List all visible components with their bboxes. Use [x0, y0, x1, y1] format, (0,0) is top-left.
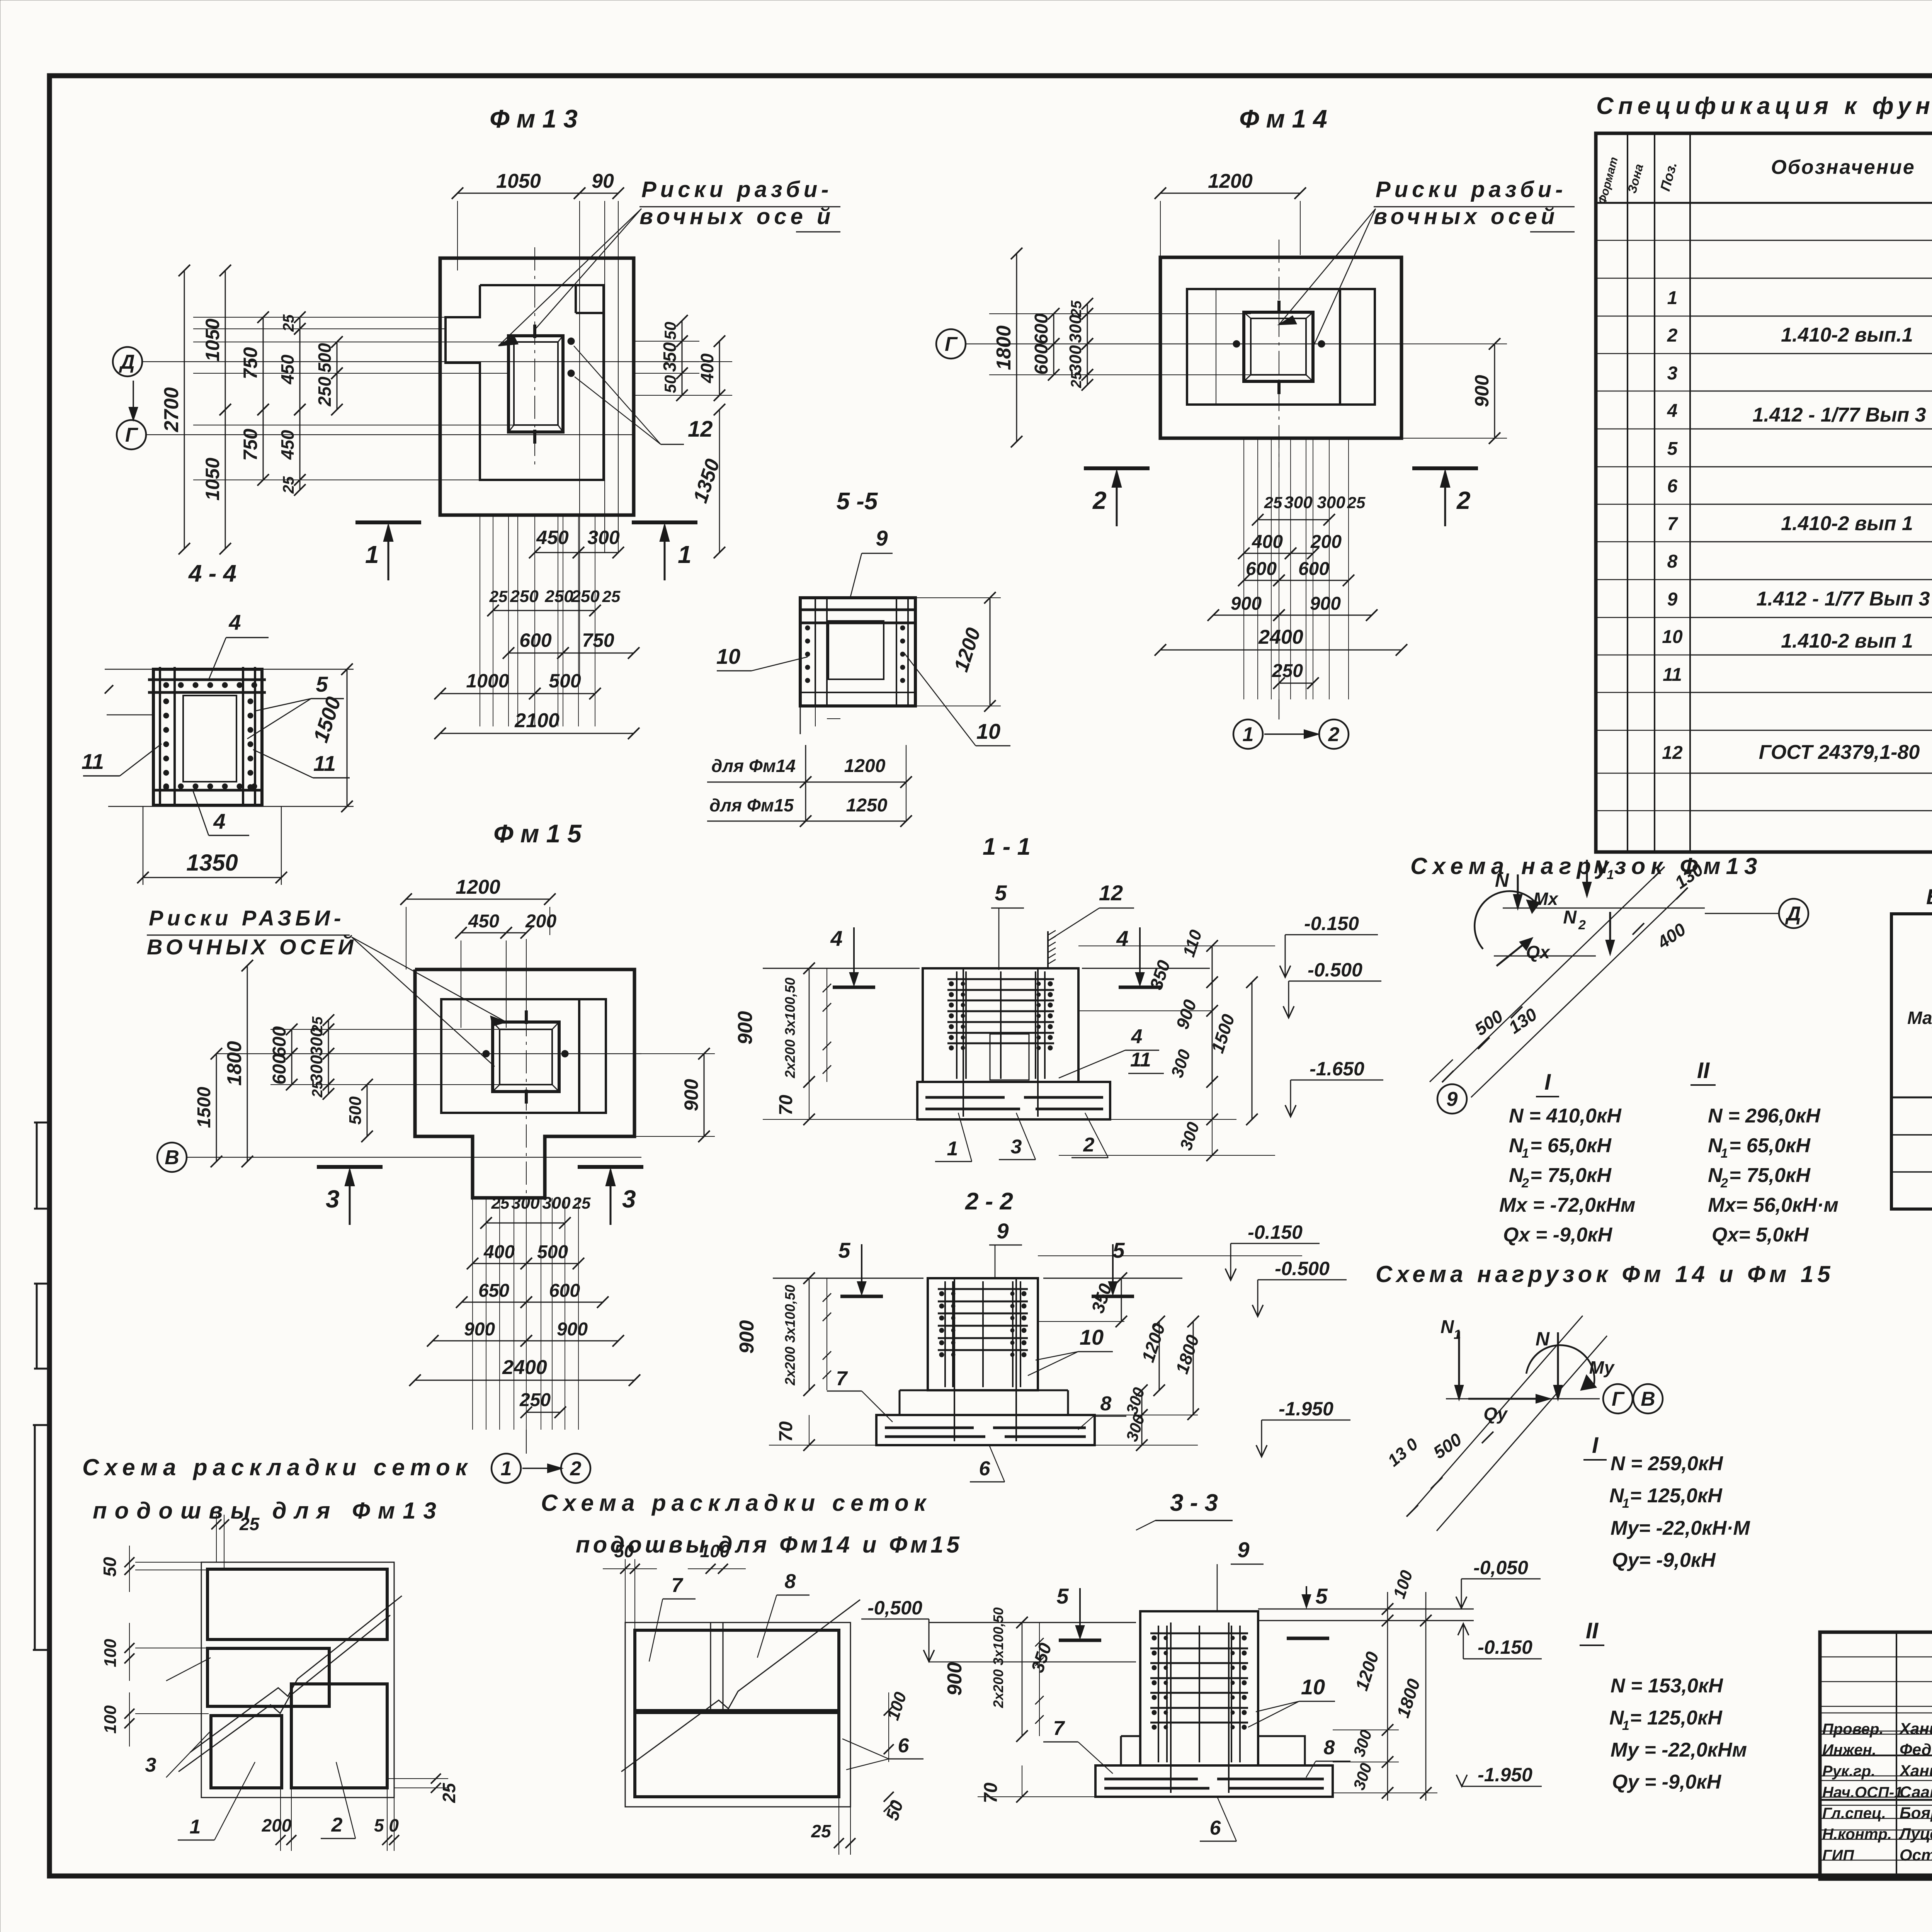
- svg-text:Схема раскладки сеток: Схема раскладки сеток: [82, 1454, 473, 1480]
- svg-text:200: 200: [262, 1815, 292, 1835]
- section 1-1 ground line right: [1082, 968, 1210, 969]
- svg-text:10: 10: [1080, 1325, 1104, 1349]
- svg-text:Н.контр.: Н.контр.: [1822, 1826, 1892, 1843]
- leader lines riski to pocket Fm14: [1279, 209, 1376, 325]
- section 1-1 footing bottom bars: [925, 1096, 1005, 1099]
- svg-text:25: 25: [811, 1821, 832, 1841]
- section 2-2 ground line right: [1043, 1278, 1182, 1279]
- section 3-3 ground line left: [929, 1622, 1136, 1623]
- svg-text:подошвы для Фм13: подошвы для Фм13: [93, 1498, 444, 1524]
- svg-text:900: 900: [1471, 375, 1493, 407]
- svg-text:Риски разби-: Риски разби-: [1376, 177, 1566, 202]
- svg-text:Qу= -9,0кН: Qу= -9,0кН: [1612, 1549, 1716, 1571]
- svg-text:90: 90: [592, 170, 614, 192]
- svg-text:1200: 1200: [1208, 170, 1253, 192]
- svg-text:ГОСТ 24379,1-80: ГОСТ 24379,1-80: [1759, 741, 1920, 764]
- section 5-5 rebar dots: [805, 626, 810, 630]
- svg-text:ГИП: ГИП: [1822, 1847, 1854, 1864]
- svg-text:2: 2: [1521, 1176, 1529, 1190]
- section 3-3 level -0.150 inverted: [1463, 1624, 1464, 1659]
- svg-text:1350: 1350: [186, 850, 238, 876]
- Fm15 left dim 25 300 300 25: [328, 1020, 329, 1029]
- specification table header row line: [1596, 202, 1932, 204]
- svg-text:25: 25: [572, 1194, 591, 1212]
- svg-text:600: 600: [519, 629, 552, 651]
- Fm15 column pocket inner beveled: [500, 1029, 552, 1085]
- Fm15 top dim 1200: [406, 899, 550, 900]
- svg-text:9: 9: [1237, 1537, 1249, 1562]
- Fm13 column pocket inner beveled: [514, 342, 558, 425]
- svg-text:1: 1: [1522, 1146, 1529, 1161]
- section 1-1 level -1.650: [1291, 1080, 1383, 1081]
- section 2-2 column rebars and ties: [944, 1281, 946, 1387]
- section 1-1 left dim 2x200 3x100 50: [827, 968, 827, 1082]
- Fm14 bottom dim 400 200: [1244, 553, 1291, 554]
- title block drawing name fundamenty: [1820, 1799, 1932, 1801]
- load scheme Fm13 rails: [1448, 872, 1659, 1077]
- svg-text:1050: 1050: [202, 457, 223, 500]
- svg-text:= 65,0кН: = 65,0кН: [1729, 1134, 1811, 1157]
- svg-text:10: 10: [1662, 627, 1683, 647]
- section 3-3 right dim line 1200 300 300: [1387, 1592, 1388, 1801]
- section 2-2 footing vertical bars: [954, 1278, 955, 1441]
- svg-text:2х200 3х100,50: 2х200 3х100,50: [782, 978, 798, 1078]
- section 1-1 left dim 70: [809, 1082, 810, 1119]
- section 1-1 left dim 900: [809, 968, 810, 1082]
- Fm14 bottom dim 900 900: [1213, 615, 1279, 616]
- svg-text:70: 70: [981, 1782, 1001, 1803]
- title block signature rows: [1820, 1632, 1932, 1633]
- Fm14 risk dots sides: [1233, 340, 1240, 347]
- Fm14 section mark 2 right: [1412, 466, 1478, 470]
- svg-text:4: 4: [1667, 401, 1678, 421]
- Fm15 top dim 450 200: [461, 932, 506, 934]
- svg-text:900: 900: [1310, 594, 1341, 614]
- svg-text:Qх= 5,0кН: Qх= 5,0кН: [1712, 1224, 1809, 1246]
- svg-text:3 - 3: 3 - 3: [1170, 1490, 1218, 1516]
- svg-text:= 125,0кН: = 125,0кН: [1630, 1485, 1723, 1507]
- svg-text:4: 4: [1116, 926, 1128, 951]
- svg-text:300: 300: [1066, 345, 1085, 374]
- load scheme Fm13 axis D circle: [1779, 899, 1808, 928]
- svg-text:250: 250: [510, 587, 539, 606]
- svg-text:11: 11: [313, 751, 336, 776]
- title block signature table columns: [1896, 1632, 1897, 1879]
- Fm13 bottom dim 1000 500: [440, 693, 535, 694]
- Fm13 left dim 25 450 450 25: [299, 317, 301, 329]
- svg-text:Боярченко: Боярченко: [1900, 1804, 1932, 1822]
- svg-text:6: 6: [1667, 476, 1678, 497]
- section 4-4 outer square: [153, 669, 262, 805]
- section 3-3 level -0.050: [1461, 1578, 1541, 1580]
- svg-text:3: 3: [145, 1754, 156, 1776]
- svg-text:Му = -22,0кНм: Му = -22,0кНм: [1611, 1739, 1747, 1761]
- svg-text:Спецификация к фундаментам Фм1: Спецификация к фундаментам Фм13-Фм15: [1596, 93, 1932, 119]
- svg-text:Г: Г: [125, 424, 138, 446]
- svg-text:Ханин: Ханин: [1899, 1719, 1932, 1738]
- svg-text:N = 259,0кН: N = 259,0кН: [1611, 1452, 1723, 1475]
- svg-text:900: 900: [464, 1319, 495, 1340]
- Fm13 top dimension 1050: [457, 193, 580, 194]
- svg-text:4: 4: [213, 809, 225, 833]
- svg-text:2400: 2400: [1258, 626, 1303, 648]
- load scheme Fm14 Fm15 rails: [1412, 1316, 1583, 1511]
- svg-text:Схема раскладки сеток: Схема раскладки сеток: [541, 1490, 931, 1516]
- svg-text:5: 5: [1667, 439, 1678, 459]
- section 2-2 level -1.950: [1262, 1420, 1350, 1421]
- section 4-4 inner square: [183, 696, 236, 782]
- svg-text:N: N: [1440, 1317, 1454, 1337]
- section 3-3 backfill mark left: [1059, 1639, 1101, 1642]
- Fm14 horizontal guide lines left: [989, 313, 1251, 314]
- mesh layout Fm13 break diagonal: [190, 1596, 402, 1752]
- svg-text:Обозначение: Обозначение: [1771, 156, 1915, 179]
- Fm14 bottom dim 25 300 300 25: [1258, 519, 1329, 520]
- svg-text:500: 500: [537, 1242, 568, 1262]
- section 3-3 left dim 900: [1022, 1622, 1023, 1736]
- svg-text:Луценко: Луценко: [1898, 1825, 1932, 1843]
- svg-text:2х200 3х100,50: 2х200 3х100,50: [990, 1607, 1006, 1708]
- svg-text:Г: Г: [1612, 1388, 1625, 1410]
- svg-text:Мх: Мх: [1533, 889, 1559, 909]
- svg-text:6: 6: [979, 1458, 991, 1480]
- Fm15 middle rectangle: [441, 999, 606, 1113]
- section 2-2 left dim 900: [809, 1278, 810, 1390]
- svg-text:6: 6: [1210, 1817, 1221, 1839]
- Fm15 bottom dim 650 600: [462, 1302, 526, 1303]
- mesh layout Fm14 Fm15 dim 100 top: [710, 1569, 711, 1712]
- svg-text:8: 8: [1100, 1393, 1112, 1415]
- svg-text:I: I: [1592, 1433, 1599, 1458]
- svg-text:900: 900: [736, 1320, 758, 1354]
- Fm15 bottom dim 900 900: [433, 1340, 526, 1342]
- section 3-3 footing slab: [1095, 1765, 1333, 1797]
- load scheme Fm14 Fm15 horizontal line: [1446, 1398, 1600, 1400]
- Fm13 pocket axis vertical dash-dot: [534, 247, 535, 468]
- Fm13 inner step line: [576, 312, 604, 314]
- svg-text:9: 9: [1667, 589, 1678, 610]
- svg-text:Qх = -9,0кН: Qх = -9,0кН: [1503, 1224, 1613, 1246]
- section 1-1 anchor bolt above ground: [1047, 931, 1049, 968]
- svg-text:Провер.: Провер.: [1822, 1721, 1884, 1738]
- svg-text:10: 10: [716, 644, 740, 668]
- svg-text:Фм14: Фм14: [1239, 104, 1334, 133]
- svg-text:25: 25: [280, 314, 297, 332]
- steel table data row lines: [1891, 1097, 1932, 1099]
- svg-text:Д: Д: [1785, 903, 1801, 925]
- svg-text:7: 7: [672, 1574, 684, 1597]
- Fm15 bottom dim 400 500: [473, 1263, 526, 1264]
- section 3-3 ground line right upper: [1258, 1609, 1474, 1610]
- svg-text:400: 400: [1252, 532, 1283, 552]
- svg-text:3: 3: [326, 1185, 340, 1213]
- load scheme Fm13 horizontal line upper: [1503, 908, 1705, 909]
- section 1-1 ground line left: [763, 968, 920, 969]
- Fm14 bottom vertical guide lines: [1243, 438, 1244, 699]
- Fm13 left dim 750 750: [263, 317, 264, 410]
- section 3-3 footing steps: [1120, 1736, 1122, 1765]
- section 3-3 column rebars and ties: [1158, 1626, 1159, 1762]
- svg-text:50: 50: [100, 1557, 120, 1577]
- steel table outer border: [1891, 914, 1932, 1209]
- Fm14 section mark 2 left: [1084, 466, 1150, 470]
- Fm13 risk tick bottom: [533, 430, 536, 444]
- svg-text:100: 100: [101, 1639, 120, 1667]
- svg-text:2400: 2400: [502, 1356, 547, 1379]
- svg-text:4: 4: [1131, 1026, 1143, 1048]
- svg-text:100: 100: [700, 1541, 730, 1561]
- svg-text:-0.150: -0.150: [1478, 1636, 1532, 1658]
- Fm14 bottom dim total 2400: [1160, 650, 1401, 651]
- svg-text:600: 600: [269, 1054, 290, 1085]
- svg-text:1: 1: [190, 1816, 201, 1838]
- svg-text:4: 4: [830, 926, 842, 951]
- load scheme Fm14 Fm15 moment My arc: [1526, 1345, 1594, 1385]
- section 4-4 horizontal bars: [148, 679, 266, 681]
- svg-text:300: 300: [1317, 493, 1345, 512]
- svg-text:N: N: [1495, 869, 1509, 891]
- svg-text:250: 250: [315, 376, 335, 406]
- load scheme Fm13 dim 500 130 bottom: [1442, 1071, 1454, 1082]
- svg-text:Qх: Qх: [1526, 942, 1551, 962]
- svg-text:2: 2: [1083, 1134, 1095, 1156]
- Fm15 bottom dim 25 300 300 25: [486, 1223, 565, 1224]
- load scheme Fm14 Fm15 axis V circle: [1633, 1384, 1663, 1413]
- section 3-3 ground line right lower: [1258, 1620, 1474, 1621]
- mesh layout Fm14 Fm15 dim 50 right: [839, 1796, 896, 1797]
- specification table row lines: [1690, 240, 1932, 241]
- svg-text:В: В: [1641, 1388, 1655, 1410]
- section 1-1 right dim column A: [1078, 946, 1275, 946]
- Fm15 pocket axis vertical dash-dot: [526, 939, 527, 1209]
- svg-text:1200: 1200: [456, 876, 500, 898]
- section 3-3 footing bottom bars: [1104, 1778, 1198, 1781]
- svg-text:1050: 1050: [202, 318, 223, 361]
- svg-text:50: 50: [661, 375, 679, 393]
- svg-text:9: 9: [1447, 1088, 1458, 1111]
- svg-text:9: 9: [876, 526, 888, 550]
- svg-text:1.410-2 вып 1: 1.410-2 вып 1: [1781, 630, 1913, 652]
- Fm14 left dim 25 300 300 25: [1087, 304, 1088, 314]
- svg-text:Му= -22,0кН·М: Му= -22,0кН·М: [1611, 1517, 1750, 1539]
- Fm15 bottom vertical guide lines: [472, 1198, 473, 1430]
- svg-text:5: 5: [316, 672, 328, 696]
- Fm15 left dim 600 600: [291, 1029, 293, 1054]
- Fm13 left dim 1050 1050: [225, 270, 226, 410]
- svg-text:600: 600: [1031, 344, 1052, 375]
- svg-text:12: 12: [1099, 881, 1123, 905]
- mesh layout Fm13 mesh sheet bottom-right: [291, 1684, 387, 1788]
- Fm14 top dimension 1200: [1160, 193, 1300, 194]
- svg-text:Марка элемента: Марка элемента: [1907, 1008, 1932, 1028]
- Fm15 bottom dim 250: [526, 1412, 560, 1413]
- svg-text:7: 7: [1053, 1717, 1065, 1740]
- Fm13 middle plan rectangle with step: [446, 285, 604, 480]
- svg-text:25: 25: [1264, 493, 1282, 512]
- axis G circle: [117, 420, 146, 449]
- svg-text:1: 1: [947, 1138, 958, 1160]
- Fm15 column pocket outer: [493, 1022, 559, 1092]
- Fm13 bottom dim 25 250 250 25 0 25: [493, 610, 595, 611]
- svg-text:В: В: [165, 1146, 179, 1169]
- Fm14 column pocket inner beveled: [1251, 318, 1306, 375]
- svg-text:-0,050: -0,050: [1473, 1557, 1528, 1578]
- specification table column lines: [1627, 133, 1628, 852]
- svg-text:750: 750: [240, 429, 261, 461]
- load scheme Fm13 force N2 arrow: [1609, 912, 1611, 954]
- section 2-2 footing bottom bars: [885, 1427, 974, 1429]
- svg-text:1: 1: [1622, 1496, 1629, 1511]
- svg-text:-0.500: -0.500: [1308, 959, 1362, 981]
- svg-text:-0.150: -0.150: [1248, 1221, 1303, 1243]
- specification table left columns row stubs: [1596, 240, 1690, 241]
- svg-text:1000: 1000: [466, 670, 509, 692]
- section 3-3 footing vertical bars: [1170, 1622, 1172, 1793]
- svg-text:Qу: Qу: [1483, 1404, 1508, 1424]
- svg-text:3: 3: [1011, 1136, 1022, 1158]
- svg-text:900: 900: [734, 1011, 757, 1045]
- svg-text:250: 250: [571, 587, 600, 606]
- load scheme Fm14 Fm15 axis G circle: [1603, 1384, 1633, 1413]
- svg-text:900: 900: [680, 1079, 702, 1111]
- svg-text:250: 250: [519, 1390, 551, 1410]
- section 1-1 pocket void dashed: [990, 1034, 1029, 1080]
- Fm13 section mark 1 left: [355, 520, 421, 524]
- svg-text:2700: 2700: [160, 387, 183, 432]
- svg-text:Риски разби-: Риски разби-: [641, 177, 832, 202]
- svg-text:900: 900: [944, 1662, 966, 1696]
- svg-text:25: 25: [491, 1194, 510, 1212]
- Fm13 risk dots right: [568, 338, 575, 345]
- svg-text:Осташевский: Осташевский: [1900, 1846, 1932, 1864]
- svg-text:300: 300: [587, 527, 620, 548]
- svg-text:600: 600: [1031, 313, 1052, 344]
- svg-text:6: 6: [898, 1735, 910, 1757]
- svg-text:Федотова: Федотова: [1900, 1740, 1932, 1759]
- svg-text:Фм15: Фм15: [493, 819, 588, 848]
- section 3-3 level -0.500 left: [861, 1619, 929, 1620]
- Fm14 axis circles 1 to 2: [1233, 719, 1263, 749]
- mesh layout Fm14 Fm15 vertical divider lines: [710, 1622, 711, 1712]
- svg-text:N: N: [1563, 907, 1577, 928]
- section 1-1 footing slab: [917, 1082, 1110, 1119]
- svg-text:8: 8: [1667, 551, 1678, 572]
- load scheme Fm14 Fm15 force N arrow: [1557, 1332, 1559, 1399]
- Fm14 left dim 1800: [1016, 253, 1017, 442]
- load scheme Fm14 Fm15 force N1 arrow: [1458, 1331, 1460, 1399]
- Fm14 bottom dim 250: [1279, 683, 1313, 684]
- mesh layout Fm13 outer outline: [201, 1562, 394, 1798]
- mesh layout Fm14 Fm15 outer outline: [625, 1622, 850, 1807]
- load scheme Fm13 horizontal line lower: [1494, 956, 1596, 957]
- section 2-2 level -0.150: [1231, 1243, 1320, 1244]
- svg-text:250: 250: [544, 587, 573, 606]
- svg-text:1: 1: [501, 1458, 512, 1480]
- Fm13 right dims 50 350 50 400: [634, 341, 699, 342]
- fold mark box 2 left margin: [36, 1284, 38, 1369]
- mesh layout Fm13 mesh sheet bottom-left: [211, 1716, 282, 1788]
- svg-text:Саакьянц: Саакьянц: [1900, 1783, 1932, 1801]
- section 2-2 backfill mark right: [1092, 1295, 1134, 1298]
- load scheme Fm14 Fm15 shear Qy arrow: [1468, 1398, 1549, 1400]
- svg-text:1800: 1800: [993, 325, 1015, 370]
- section 5-5 right dim 1200: [915, 597, 1001, 598]
- svg-text:5: 5: [1315, 1584, 1328, 1608]
- load scheme Fm13 axis 9 circle: [1437, 1084, 1467, 1114]
- svg-text:25: 25: [1347, 493, 1366, 512]
- section 3-3 column outline: [1140, 1611, 1258, 1765]
- Fm15 horizontal guide lines left: [270, 1029, 500, 1030]
- section 3-3 right dim line 1800: [1425, 1592, 1427, 1801]
- Fm15 section mark 3 right: [578, 1165, 643, 1169]
- leader lines riski to pocket Fm15: [352, 937, 506, 1022]
- mesh layout Fm13 dim 25 top: [216, 1515, 217, 1562]
- svg-text:300: 300: [307, 1055, 326, 1083]
- section 3-3 left dim 350: [1060, 1622, 1061, 1685]
- svg-text:N: N: [1536, 1328, 1550, 1350]
- svg-text:-0,500: -0,500: [867, 1597, 922, 1619]
- svg-text:Му: Му: [1589, 1357, 1615, 1378]
- svg-text:500: 500: [315, 343, 335, 372]
- svg-text:1 - 1: 1 - 1: [983, 833, 1031, 860]
- svg-text:750: 750: [582, 629, 614, 651]
- svg-text:Г: Г: [945, 333, 958, 355]
- svg-text:750: 750: [240, 347, 261, 379]
- svg-text:-0.500: -0.500: [1275, 1258, 1330, 1279]
- svg-text:N = 410,0кН: N = 410,0кН: [1509, 1105, 1622, 1127]
- svg-text:450: 450: [277, 430, 298, 460]
- svg-text:Нач.ОСП-1: Нач.ОСП-1: [1822, 1784, 1903, 1801]
- section 1-1 backfill mark right: [1119, 986, 1161, 989]
- load scheme Fm14 Fm15 dims 130 500: [1406, 1505, 1418, 1517]
- svg-text:5 -5: 5 -5: [837, 488, 878, 515]
- axis G2 circle: [936, 329, 966, 359]
- svg-text:Qу = -9,0кН: Qу = -9,0кН: [1612, 1771, 1722, 1793]
- fold mark box 1 left margin: [36, 1122, 38, 1209]
- svg-text:11: 11: [1130, 1049, 1151, 1071]
- section 3-3 level -1.950: [1462, 1786, 1542, 1787]
- svg-text:25: 25: [1068, 371, 1085, 388]
- Fm13 bottom dim total 2100: [440, 733, 634, 734]
- Fm13 bottom dim 600 750: [509, 653, 563, 654]
- svg-text:Ведомость расхода стали на эле: Ведомость расхода стали на элемент, кг: [1926, 884, 1932, 909]
- mesh layout Fm13 dim 100 left low: [135, 1713, 209, 1714]
- Fm13 bottom dim 450 300: [535, 552, 578, 553]
- mesh layout Fm14 Fm15 break diagonal: [621, 1600, 860, 1772]
- svg-text:250: 250: [1272, 661, 1303, 681]
- section 1-1 level -0.150: [1285, 934, 1378, 935]
- svg-text:500: 500: [346, 1096, 365, 1125]
- svg-text:11: 11: [82, 749, 104, 774]
- svg-text:Д: Д: [119, 351, 135, 373]
- section 3-3 ground line left lower: [929, 1662, 1136, 1662]
- svg-text:300: 300: [1066, 315, 1085, 343]
- svg-text:50: 50: [614, 1541, 634, 1561]
- section 1-1 column rebars and ties: [956, 971, 957, 1079]
- svg-text:-0.150: -0.150: [1304, 913, 1359, 934]
- svg-text:II: II: [1697, 1058, 1710, 1083]
- svg-text:1: 1: [1721, 1146, 1728, 1161]
- svg-text:600: 600: [549, 1281, 580, 1301]
- Fm14 risk tick top: [1277, 301, 1281, 314]
- mesh layout Fm14 Fm15 dim 50 top: [625, 1559, 626, 1622]
- svg-text:Риски РАЗБИ-: Риски РАЗБИ-: [149, 906, 345, 930]
- section 2-2 left dim 2x200 3x100 50: [827, 1278, 827, 1390]
- svg-text:1500: 1500: [194, 1087, 214, 1128]
- svg-text:= 125,0кН: = 125,0кН: [1630, 1707, 1723, 1729]
- svg-text:2100: 2100: [514, 709, 560, 732]
- svg-text:N: N: [1594, 857, 1608, 878]
